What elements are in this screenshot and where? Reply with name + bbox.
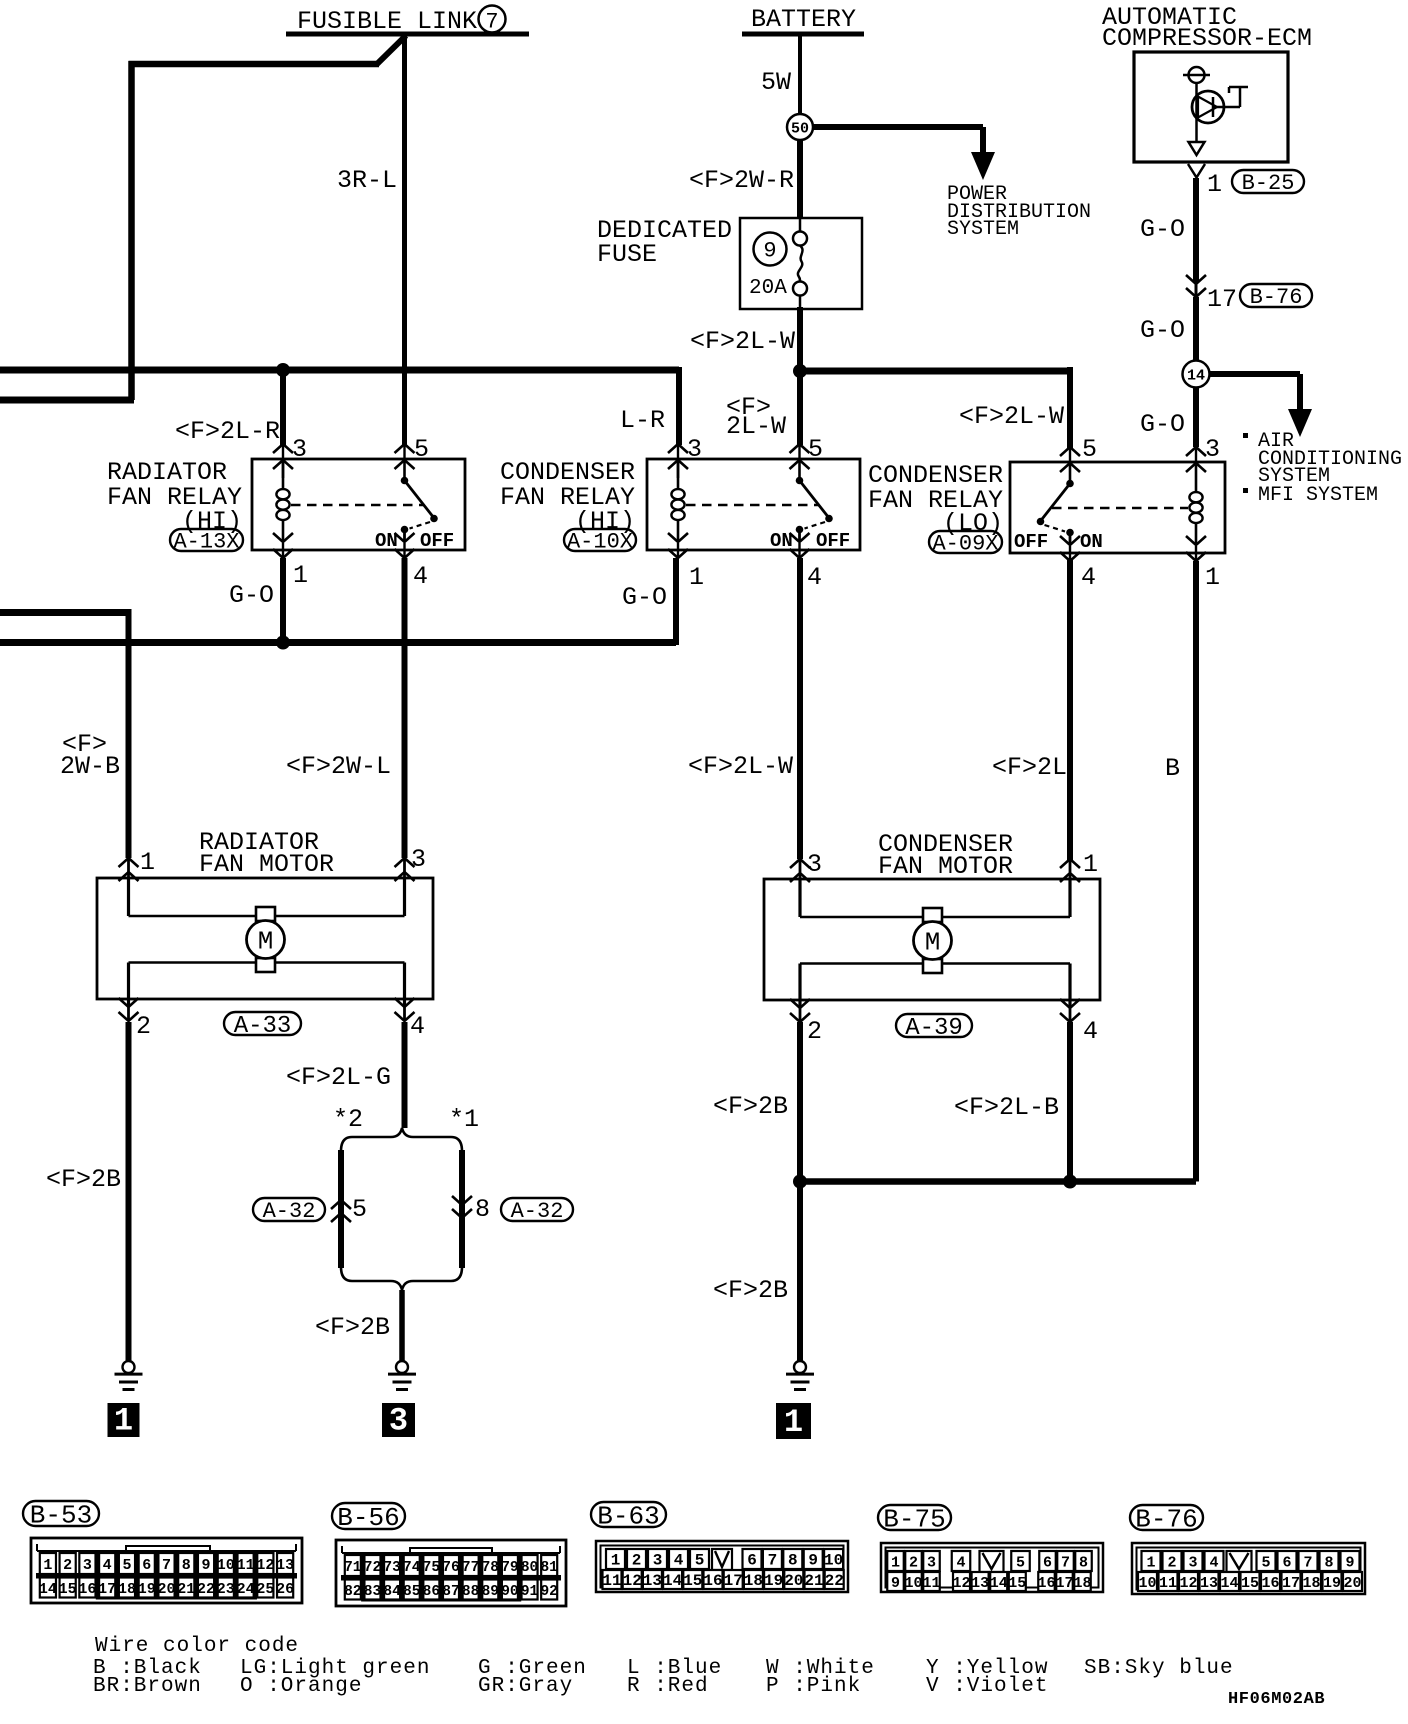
svg-text:12: 12: [256, 1557, 274, 1574]
svg-text:(LO): (LO): [943, 509, 1003, 538]
svg-text:14: 14: [990, 1575, 1008, 1592]
svg-text:OFF: OFF: [1014, 531, 1048, 553]
svg-text:4: 4: [674, 1552, 684, 1570]
svg-text:1: 1: [293, 561, 308, 590]
svg-text:OFF: OFF: [420, 530, 454, 552]
svg-text:5: 5: [808, 435, 823, 464]
svg-text:13: 13: [276, 1557, 294, 1574]
svg-text:*2: *2: [333, 1105, 363, 1134]
svg-text:4: 4: [103, 1557, 112, 1574]
svg-text:7: 7: [1303, 1555, 1312, 1572]
svg-text:18: 18: [1073, 1575, 1091, 1592]
svg-text:1: 1: [891, 1555, 900, 1572]
svg-text:18: 18: [1302, 1575, 1320, 1592]
svg-text:4: 4: [956, 1555, 965, 1572]
svg-text:9: 9: [1345, 1555, 1354, 1572]
svg-text:6: 6: [142, 1557, 151, 1574]
svg-text:2: 2: [909, 1555, 918, 1572]
svg-text:<F>2L-W: <F>2L-W: [688, 752, 793, 781]
svg-text:85: 85: [403, 1584, 420, 1600]
svg-text:1: 1: [114, 1403, 133, 1440]
svg-text:74: 74: [403, 1560, 421, 1576]
svg-text:<F>2W-R: <F>2W-R: [689, 166, 794, 195]
svg-text:3: 3: [83, 1557, 92, 1574]
svg-text:9: 9: [763, 239, 776, 264]
svg-text:B-76: B-76: [1135, 1504, 1197, 1534]
svg-text:B: B: [1165, 754, 1180, 783]
svg-text:(HI): (HI): [575, 507, 635, 536]
svg-text:HF06M02AB: HF06M02AB: [1228, 1690, 1325, 1709]
svg-text:77: 77: [462, 1560, 479, 1576]
svg-text:78: 78: [482, 1560, 499, 1576]
svg-text:<F>2B: <F>2B: [713, 1092, 788, 1121]
svg-text:80: 80: [521, 1560, 538, 1576]
svg-text:4: 4: [1081, 563, 1096, 592]
svg-text:3: 3: [389, 1403, 408, 1440]
svg-text:4: 4: [410, 1012, 425, 1041]
svg-text:12: 12: [623, 1572, 642, 1590]
svg-text:4: 4: [1209, 1555, 1218, 1572]
svg-text:FUSE: FUSE: [597, 240, 657, 269]
svg-text:3: 3: [653, 1552, 663, 1570]
svg-text:19: 19: [1323, 1575, 1341, 1592]
svg-text:3: 3: [927, 1555, 936, 1572]
svg-text:20: 20: [157, 1581, 175, 1598]
svg-text:2: 2: [1167, 1555, 1176, 1572]
svg-text:9: 9: [891, 1575, 900, 1592]
svg-text:5: 5: [122, 1557, 131, 1574]
svg-text:6: 6: [747, 1552, 757, 1570]
svg-text:22: 22: [197, 1581, 215, 1598]
svg-text:*1: *1: [449, 1105, 479, 1134]
svg-text:G-O: G-O: [1140, 215, 1185, 244]
svg-text:8: 8: [475, 1195, 490, 1224]
svg-text:10: 10: [1138, 1575, 1156, 1592]
svg-text:<F>2B: <F>2B: [46, 1165, 121, 1194]
svg-text:1: 1: [43, 1557, 52, 1574]
svg-text:A-39: A-39: [905, 1015, 963, 1042]
svg-text:10: 10: [904, 1575, 922, 1592]
svg-text:FUSIBLE LINK: FUSIBLE LINK: [297, 7, 477, 36]
svg-text:1: 1: [1083, 850, 1098, 879]
svg-text:G-O: G-O: [229, 581, 274, 610]
svg-text:G-O: G-O: [622, 583, 667, 612]
svg-text:18: 18: [118, 1581, 136, 1598]
svg-text:4: 4: [413, 562, 428, 591]
svg-text:16: 16: [1037, 1575, 1055, 1592]
svg-text:2: 2: [63, 1557, 72, 1574]
svg-text:FAN MOTOR: FAN MOTOR: [199, 850, 334, 879]
svg-text:2L-W: 2L-W: [726, 412, 786, 441]
svg-text:75: 75: [423, 1560, 440, 1576]
svg-text:20A: 20A: [749, 277, 787, 300]
svg-text:89: 89: [482, 1584, 499, 1600]
svg-text:17: 17: [98, 1581, 116, 1598]
svg-text:G-O: G-O: [1140, 316, 1185, 345]
svg-text:B-56: B-56: [337, 1503, 399, 1533]
svg-text:3: 3: [687, 435, 702, 464]
svg-text:8: 8: [1324, 1555, 1333, 1572]
svg-text:ON: ON: [375, 530, 398, 552]
svg-text:<F>2B: <F>2B: [315, 1313, 390, 1342]
svg-text:17: 17: [724, 1572, 743, 1590]
svg-text:5: 5: [414, 435, 429, 464]
svg-text:81: 81: [540, 1560, 558, 1576]
svg-text:8: 8: [1079, 1555, 1088, 1572]
svg-text:11: 11: [602, 1572, 621, 1590]
svg-text:ON: ON: [770, 530, 793, 552]
svg-text:7: 7: [1061, 1555, 1070, 1572]
svg-text:84: 84: [383, 1584, 401, 1600]
svg-text:3R-L: 3R-L: [337, 166, 397, 195]
svg-text:B-75: B-75: [883, 1504, 945, 1534]
svg-text:10: 10: [217, 1557, 235, 1574]
svg-text:76: 76: [442, 1560, 459, 1576]
svg-text:13: 13: [1200, 1575, 1218, 1592]
svg-text:5W: 5W: [761, 68, 791, 97]
svg-text:2: 2: [807, 1017, 822, 1046]
svg-text:<F>2W-L: <F>2W-L: [286, 752, 391, 781]
svg-text:COMPRESSOR-ECM: COMPRESSOR-ECM: [1102, 24, 1312, 53]
svg-text:13: 13: [971, 1575, 989, 1592]
svg-text:19: 19: [764, 1572, 783, 1590]
svg-text:11: 11: [922, 1575, 940, 1592]
svg-text:L-R: L-R: [620, 406, 665, 435]
svg-text:<F>2L-W: <F>2L-W: [690, 327, 795, 356]
svg-text:M: M: [258, 927, 274, 957]
svg-text:14: 14: [663, 1572, 683, 1590]
svg-text:1: 1: [1207, 170, 1222, 199]
svg-text:4: 4: [1083, 1017, 1098, 1046]
svg-text:3: 3: [807, 850, 822, 879]
svg-text:P :Pink: P :Pink: [766, 1675, 861, 1698]
svg-text:5: 5: [1261, 1555, 1270, 1572]
svg-text:8: 8: [182, 1557, 191, 1574]
svg-text:50: 50: [791, 121, 809, 138]
svg-text:3: 3: [411, 845, 426, 874]
svg-text:GR:Gray: GR:Gray: [478, 1675, 573, 1698]
svg-text:11: 11: [237, 1557, 255, 1574]
svg-text:<F>2L-B: <F>2L-B: [954, 1093, 1059, 1122]
svg-text:23: 23: [217, 1581, 235, 1598]
svg-text:15: 15: [1008, 1575, 1026, 1592]
svg-text:24: 24: [237, 1581, 255, 1598]
svg-text:18: 18: [744, 1572, 763, 1590]
svg-text:<F>2L-R: <F>2L-R: [175, 417, 280, 446]
svg-text:17: 17: [1282, 1575, 1300, 1592]
svg-text:6: 6: [1043, 1555, 1052, 1572]
svg-text:16: 16: [78, 1581, 96, 1598]
svg-text:17: 17: [1207, 285, 1237, 314]
svg-text:82: 82: [344, 1584, 361, 1600]
svg-text:R :Red: R :Red: [627, 1675, 709, 1698]
svg-text:79: 79: [501, 1560, 518, 1576]
svg-text:BR:Brown: BR:Brown: [93, 1675, 202, 1698]
svg-text:1: 1: [689, 563, 704, 592]
svg-text:11: 11: [1159, 1575, 1177, 1592]
svg-text:V :Violet: V :Violet: [926, 1675, 1048, 1698]
svg-text:73: 73: [383, 1560, 400, 1576]
svg-text:Wire color code: Wire color code: [95, 1635, 299, 1658]
svg-text:83: 83: [364, 1584, 381, 1600]
svg-text:7: 7: [162, 1557, 171, 1574]
svg-text:16: 16: [703, 1572, 722, 1590]
svg-text:3: 3: [292, 435, 307, 464]
svg-text:MFI SYSTEM: MFI SYSTEM: [1258, 484, 1378, 507]
svg-text:12: 12: [952, 1575, 970, 1592]
svg-text:3: 3: [1205, 435, 1220, 464]
svg-text:20: 20: [784, 1572, 803, 1590]
svg-text:1: 1: [611, 1552, 621, 1570]
svg-text:12: 12: [1179, 1575, 1197, 1592]
svg-text:15: 15: [683, 1572, 702, 1590]
svg-text:A-33: A-33: [234, 1013, 292, 1040]
svg-text:5: 5: [1016, 1555, 1025, 1572]
svg-text:91: 91: [521, 1584, 539, 1600]
svg-text:1: 1: [1205, 563, 1220, 592]
svg-text:G-O: G-O: [1140, 410, 1185, 439]
svg-text:BATTERY: BATTERY: [751, 5, 856, 34]
svg-text:SYSTEM: SYSTEM: [947, 218, 1019, 241]
svg-text:26: 26: [276, 1581, 294, 1598]
svg-text:2W-B: 2W-B: [60, 752, 120, 781]
svg-text:90: 90: [501, 1584, 518, 1600]
svg-text:2: 2: [632, 1552, 642, 1570]
svg-text:FAN MOTOR: FAN MOTOR: [878, 852, 1013, 881]
svg-text:(HI): (HI): [182, 507, 242, 536]
svg-text:B-63: B-63: [597, 1501, 659, 1531]
svg-text:SB:Sky blue: SB:Sky blue: [1084, 1657, 1234, 1680]
svg-text:88: 88: [462, 1584, 479, 1600]
svg-text:8: 8: [788, 1552, 798, 1570]
svg-text:B-53: B-53: [30, 1500, 92, 1530]
svg-text:3: 3: [1188, 1555, 1197, 1572]
svg-text:A-32: A-32: [511, 1199, 564, 1224]
svg-text:<F>2B: <F>2B: [713, 1276, 788, 1305]
svg-text:A-32: A-32: [263, 1199, 316, 1224]
svg-text:5: 5: [695, 1552, 705, 1570]
svg-text:1: 1: [140, 848, 155, 877]
svg-text:21: 21: [177, 1581, 195, 1598]
svg-text:72: 72: [364, 1560, 381, 1576]
svg-text:14: 14: [39, 1581, 57, 1598]
svg-text:5: 5: [352, 1195, 367, 1224]
svg-text:15: 15: [1241, 1575, 1259, 1592]
svg-text:<F>2L-W: <F>2L-W: [959, 402, 1064, 431]
svg-text:86: 86: [423, 1584, 440, 1600]
svg-text:7: 7: [768, 1552, 778, 1570]
svg-text:M: M: [925, 928, 941, 958]
svg-text:13: 13: [643, 1572, 662, 1590]
svg-text:92: 92: [540, 1584, 557, 1600]
svg-text:5: 5: [1082, 435, 1097, 464]
svg-text:1: 1: [784, 1404, 803, 1441]
svg-text:9: 9: [808, 1552, 818, 1570]
svg-text:4: 4: [807, 563, 822, 592]
svg-text:14: 14: [1220, 1575, 1238, 1592]
svg-text:ON: ON: [1080, 531, 1103, 553]
svg-text:14: 14: [1187, 368, 1205, 385]
svg-text:25: 25: [256, 1581, 274, 1598]
svg-text:10: 10: [824, 1552, 843, 1570]
svg-text:OFF: OFF: [816, 530, 850, 552]
svg-text:19: 19: [138, 1581, 156, 1598]
svg-text:7: 7: [485, 10, 498, 35]
svg-text:<F>2L-G: <F>2L-G: [286, 1063, 391, 1092]
svg-text:1: 1: [1146, 1555, 1155, 1572]
svg-text:21: 21: [804, 1572, 823, 1590]
svg-text:<F>2L: <F>2L: [992, 753, 1067, 782]
svg-text:20: 20: [1343, 1575, 1361, 1592]
svg-text:15: 15: [59, 1581, 77, 1598]
svg-text:2: 2: [136, 1012, 151, 1041]
svg-text:O :Orange: O :Orange: [240, 1675, 362, 1698]
svg-text:6: 6: [1282, 1555, 1291, 1572]
svg-text:B-25: B-25: [1242, 171, 1295, 196]
svg-text:22: 22: [825, 1572, 844, 1590]
svg-text:17: 17: [1055, 1575, 1073, 1592]
svg-text:9: 9: [202, 1557, 211, 1574]
svg-text:71: 71: [344, 1560, 362, 1576]
svg-text:16: 16: [1261, 1575, 1279, 1592]
svg-text:B-76: B-76: [1250, 285, 1303, 310]
svg-text:87: 87: [442, 1584, 459, 1600]
